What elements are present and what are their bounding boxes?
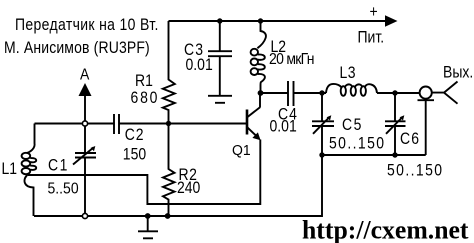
svg-text:C6: C6 — [400, 130, 420, 148]
svg-text:20 мкГн: 20 мкГн — [269, 52, 314, 69]
svg-text:5..50: 5..50 — [48, 179, 79, 197]
svg-text:680: 680 — [131, 89, 160, 107]
svg-text:C2: C2 — [125, 126, 144, 144]
svg-text:L3: L3 — [340, 64, 357, 82]
svg-text:150: 150 — [123, 145, 146, 163]
svg-text:Пит.: Пит. — [358, 28, 385, 46]
svg-text:0.01: 0.01 — [270, 117, 297, 135]
svg-text:C1: C1 — [48, 156, 69, 174]
svg-text:М. Анисимов (RU3PF): М. Анисимов (RU3PF) — [4, 39, 150, 57]
svg-text:Q1: Q1 — [232, 142, 251, 159]
svg-text:50..150: 50..150 — [329, 134, 385, 152]
svg-text:http://cxem.net: http://cxem.net — [302, 215, 469, 243]
svg-text:Вых.: Вых. — [443, 63, 473, 81]
svg-text:240: 240 — [177, 179, 200, 197]
svg-text:L1: L1 — [2, 160, 18, 178]
svg-text:+: + — [370, 3, 378, 21]
svg-text:50..150: 50..150 — [387, 161, 443, 179]
svg-text:C5: C5 — [342, 116, 363, 134]
svg-text:А: А — [80, 67, 90, 84]
svg-text:Передатчик на 10 Вт.: Передатчик на 10 Вт. — [15, 16, 159, 34]
svg-text:0.01: 0.01 — [186, 56, 213, 74]
svg-text:R1: R1 — [135, 72, 153, 90]
